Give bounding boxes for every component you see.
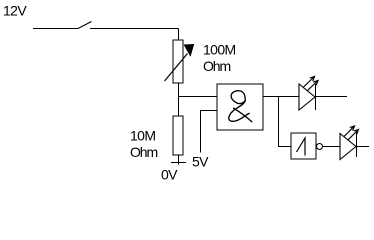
resistor 10M body	[173, 116, 183, 155]
LED D1 triangle	[299, 84, 315, 110]
svg-text:100M: 100M	[203, 42, 236, 58]
variable resistor (LDR) 100M body	[173, 40, 183, 83]
inverter U2 output bubble	[317, 144, 323, 150]
inverter U2 symbol 1	[297, 138, 306, 156]
svg-text:Ohm: Ohm	[203, 58, 230, 74]
LED D2 emission arrow 2	[348, 130, 359, 141]
wire 5V to AND input 2	[200, 110, 217, 112]
LED D1 cathode bar	[315, 84, 317, 110]
LED D2 cathode bar	[356, 131, 358, 157]
wire from top rail down to variable resistor	[178, 29, 180, 42]
wire branch to inverter input	[278, 146, 291, 148]
LED D2 emission arrow 1	[344, 126, 355, 137]
wire LED D1 to output stub	[315, 96, 347, 98]
variable resistor arrow shaft	[165, 54, 188, 82]
LED D2 triangle	[340, 134, 356, 160]
wire branch down to inverter	[278, 96, 280, 147]
ground 0V terminal bar	[171, 162, 186, 164]
wire switch left lead	[33, 28, 78, 30]
svg-text:5V: 5V	[192, 154, 209, 170]
svg-text:Ohm: Ohm	[130, 144, 157, 160]
svg-text:0V: 0V	[161, 167, 178, 183]
wire junction down to resistor 10M	[178, 96, 180, 116]
switch S1 (open)	[78, 22, 92, 29]
AND gate U1 box	[217, 84, 263, 130]
svg-text:10M: 10M	[130, 128, 155, 144]
LED D1 emission arrow 1	[304, 77, 315, 88]
wire LED D2 output stub	[356, 146, 369, 148]
wire variable resistor to junction	[178, 83, 180, 97]
inverter U2 box	[291, 133, 316, 159]
LED D1 emission arrow 2	[308, 81, 319, 91]
wire AND output to LED D1	[263, 96, 299, 98]
wire resistor 10M to 0V terminal	[178, 155, 180, 165]
power 5V lead	[200, 110, 202, 153]
variable resistor arrowhead	[184, 44, 194, 56]
wire switch right lead	[90, 28, 179, 30]
AND gate U1 ampersand symbol	[229, 91, 252, 122]
svg-text:12V: 12V	[3, 2, 27, 18]
wire inverter bubble to LED D2	[323, 146, 341, 148]
node junction to AND input 1	[178, 96, 217, 98]
